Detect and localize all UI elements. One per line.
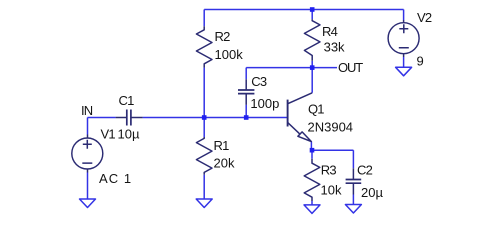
wire R2 top lead: [203, 10, 205, 27]
wire emitter node to C2: [312, 149, 353, 151]
wire V2 top stem: [403, 10, 405, 21]
svg-text:R4: R4: [322, 24, 338, 39]
svg-text:100k: 100k: [215, 47, 244, 62]
svg-text:R1: R1: [214, 138, 230, 153]
svg-text:R2: R2: [215, 29, 231, 44]
transistor Q1 emitter arrow: [298, 132, 311, 142]
svg-text:V2: V2: [417, 10, 432, 25]
resistor R3: [304, 159, 320, 201]
wire V1 top stem: [87, 118, 89, 135]
svg-text:R3: R3: [321, 163, 337, 178]
wire OUT node to collector: [311, 68, 313, 93]
svg-text:Q1: Q1: [308, 102, 324, 117]
wire Q1 emitter stem: [310, 142, 312, 151]
node base junction: [202, 115, 207, 120]
ground R1: [196, 199, 212, 208]
wire C3 bottom stem: [245, 105, 247, 118]
voltage source V1: [72, 138, 103, 169]
wire R4 bottom lead: [311, 61, 313, 68]
wire C2 bottom stem: [352, 195, 354, 205]
svg-text:10k: 10k: [321, 183, 342, 198]
node C3 junction: [244, 115, 249, 120]
resistor R4: [304, 19, 320, 61]
capacitor C3: [245, 79, 247, 105]
wire C3 top stem: [245, 68, 247, 80]
wire R1 bottom lead: [203, 175, 205, 199]
node OUT junction: [310, 65, 315, 70]
node top rail junction: [310, 7, 315, 12]
svg-text:33k: 33k: [324, 40, 345, 55]
wire R3 top lead: [311, 150, 313, 159]
svg-text:20k: 20k: [214, 156, 235, 171]
svg-text:OUT: OUT: [338, 60, 363, 75]
transistor Q1 emitter: [288, 122, 300, 134]
svg-text:2N3904: 2N3904: [308, 120, 354, 135]
svg-text:10µ: 10µ: [118, 127, 140, 142]
voltage source V2: [388, 23, 419, 54]
wire R1 top lead: [203, 118, 205, 138]
svg-text:100p: 100p: [250, 96, 279, 111]
resistor R2: [196, 26, 212, 67]
svg-text:20µ: 20µ: [361, 185, 383, 200]
svg-text:AC 1: AC 1: [99, 171, 132, 186]
capacitor C2: [352, 168, 354, 194]
transistor Q1 base bar: [287, 100, 289, 127]
wire V1 bottom stem: [87, 173, 89, 200]
wire OUT rail: [246, 67, 337, 69]
svg-text:IN: IN: [81, 103, 93, 118]
svg-text:C1: C1: [119, 93, 135, 108]
node emitter junction: [310, 148, 315, 153]
resistor R1: [196, 137, 212, 175]
capacitor C1: [116, 117, 143, 119]
wire R4 top lead: [311, 10, 313, 20]
wire R2 bottom lead: [203, 68, 205, 118]
wire IN corner to C1: [88, 117, 116, 119]
wire top rail: [204, 9, 403, 11]
ground C2: [345, 205, 361, 214]
wire V2 bottom stem: [403, 57, 405, 67]
svg-text:V1: V1: [101, 127, 116, 142]
svg-text:9: 9: [417, 54, 424, 69]
ground R3: [304, 205, 320, 214]
wire C2 top stem: [352, 150, 354, 168]
ground V1: [80, 199, 96, 208]
wire C1 to Q1 base: [143, 117, 288, 119]
wire R3 bottom lead: [311, 201, 313, 205]
transistor Q1 collector: [288, 93, 312, 104]
ground V2: [396, 67, 412, 76]
svg-text:C2: C2: [357, 163, 373, 178]
svg-text:C3: C3: [251, 74, 267, 89]
